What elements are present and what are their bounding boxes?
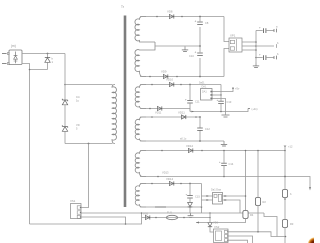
svg-text:5a01: 5a01 [199, 82, 205, 85]
wire DA1 pin2 [213, 94, 221, 96]
wire x200 vertical top caps [199, 17, 201, 77]
zener diode VD4 [62, 99, 67, 101]
node +3v tick [248, 108, 250, 110]
svg-text:DA1: DA1 [202, 86, 207, 89]
svg-text:XP1: XP1 [230, 34, 236, 38]
diode VD1 vertical [45, 54, 50, 70]
wire x221 down to pin2 line [220, 85, 222, 96]
wire x88.5 vertical down to XS1 [81, 144, 89, 208]
wire W4 bottom lead long [140, 177, 310, 189]
capacitor C11 left [185, 85, 193, 112]
wire W4 top lead rail [140, 150, 285, 152]
wire AC input stub bottom [2, 63, 7, 65]
node +12v terminal [284, 145, 286, 150]
capacitor C10 polarized [195, 51, 203, 56]
svg-text:VD13: VD13 [162, 171, 169, 175]
capacitor C13 right [217, 95, 224, 112]
svg-text:VD9: VD9 [161, 70, 167, 74]
wire W2 top lead [140, 84, 221, 86]
wire W3 top lead [140, 116, 201, 118]
wire XS2 pin1 line [228, 232, 286, 237]
diode VD15v vertical under C15 [188, 198, 193, 213]
LED VD17 [282, 190, 287, 198]
svg-text:+5v: +5v [235, 87, 240, 91]
svg-text:C4: C4 [76, 95, 80, 99]
wire x200 vertical W3 [199, 117, 201, 141]
svg-text:+: + [217, 98, 219, 102]
wire top rail from FU1 to x65 [22, 53, 65, 55]
connector XP1 [229, 38, 242, 52]
svg-text:VD5: VD5 [143, 212, 149, 216]
wire FU1 bottom to left vertical [22, 64, 30, 225]
fuse FU2 oval [166, 215, 184, 219]
IC DA2 [207, 193, 223, 205]
capacitor C14 between rails [219, 150, 227, 178]
wire bottom W1 lead to XP1 [224, 49, 229, 77]
svg-text:VD14: VD14 [166, 177, 173, 181]
svg-text:VD8: VD8 [167, 10, 173, 14]
svg-text:(m): (m) [11, 44, 16, 48]
svg-text:C13: C13 [227, 100, 232, 104]
diode VD12 [161, 148, 203, 152]
inductor secondary winding W1 upper [135, 17, 155, 43]
svg-text:+: + [185, 98, 187, 102]
svg-text:VD11: VD11 [178, 111, 185, 115]
svg-text:+: + [186, 193, 188, 197]
svg-text:R4: R4 [250, 213, 254, 217]
node junction 65,84.5 [64, 84, 66, 86]
wire join to ground line [189, 109, 191, 112]
ground under rail at 190.5 [188, 213, 194, 218]
node input pin nubs [8, 52, 10, 54]
wire top rail to XP1 [224, 17, 229, 42]
inductor primary winding of Tr1 [112, 85, 116, 144]
svg-text:+: + [195, 51, 197, 55]
diode VD8 [156, 14, 183, 18]
capacitor C15 [186, 184, 193, 199]
capacitor C2 top-right [256, 26, 277, 34]
diode VD9 [149, 74, 178, 78]
svg-text:VD: VD [76, 123, 80, 127]
node junction 190,183.5 [189, 183, 191, 185]
svg-text:C8: C8 [205, 21, 209, 25]
svg-text:(+3v): (+3v) [252, 107, 258, 111]
svg-text:VD10: VD10 [166, 78, 173, 82]
svg-text:Da1 Daa: Da1 Daa [211, 189, 221, 192]
inductor secondary winding W2 [135, 85, 146, 109]
svg-text:C10: C10 [189, 54, 194, 58]
wire left vertical x65 [64, 54, 66, 100]
node junction 190,84.5 [189, 84, 191, 86]
node junction 29.5,69.5 [29, 69, 31, 71]
diode VD11a on W2 bottom [149, 106, 162, 110]
wire W3 bottom lead / tap to ground [140, 140, 224, 142]
wire R4 bottom to arrow [196, 219, 246, 223]
wire W1 bottom lead to right [140, 76, 224, 78]
svg-text:+12: +12 [288, 145, 293, 149]
diode VD16 vertical [208, 223, 214, 233]
wire rail y213 [81, 212, 264, 214]
svg-text:DA1: DA1 [202, 91, 207, 94]
connector XS1 [71, 204, 82, 219]
svg-text:+: + [219, 160, 221, 164]
wire bottom rail y224 [30, 218, 142, 225]
svg-text:R2: R2 [263, 200, 267, 204]
ground under x256 [253, 63, 259, 68]
wire XS2 pin2 line [228, 236, 253, 243]
node arrow down right edge [309, 187, 311, 191]
wire XS1 pin3 jog [81, 217, 126, 224]
svg-text:VD11: VD11 [155, 111, 162, 115]
diode VD15 [145, 215, 156, 219]
wire XS2 pin3 line [228, 240, 248, 243]
diode VD10 [151, 82, 182, 86]
wire XP1 pins right [242, 42, 256, 50]
wire bottom of DA1 block [190, 109, 248, 112]
svg-text:C14: C14 [229, 162, 234, 166]
node +5v arrow [232, 87, 234, 89]
resistor R3 [282, 220, 287, 228]
svg-text:1u: 1u [76, 99, 79, 103]
capacitor C8 polarized [195, 20, 203, 25]
IC DA1 [201, 89, 213, 101]
wire center tap to ground line [155, 45, 200, 47]
wire W1 center tap U [135, 42, 155, 77]
wire branch to VD1 bottom [30, 69, 48, 71]
inductor secondary winding W4 [135, 151, 146, 177]
wire x258 vertical [257, 151, 259, 198]
wire AC input stub top [2, 53, 7, 55]
diode VD11 [151, 115, 197, 119]
inductor secondary winding W3 [135, 117, 146, 141]
svg-text:XS1: XS1 [70, 199, 76, 203]
svg-text:R3: R3 [290, 222, 294, 226]
capacitor C3 lower-right [256, 53, 277, 61]
capacitor C12 [197, 128, 203, 130]
wire rail y213 to x277 jog [264, 213, 277, 237]
logo blob bottom right [308, 237, 320, 243]
wire W2 bottom lead [140, 108, 190, 110]
svg-text:a0.1u: a0.1u [180, 138, 187, 141]
wire x285 vertical [284, 151, 286, 191]
ground at 224,141 [221, 141, 227, 146]
svg-text:VD12: VD12 [186, 144, 193, 148]
node junction 210,217.5 [209, 217, 211, 219]
node junctions on x200 [199, 16, 201, 18]
fuse/lamp FU1 box [9, 50, 22, 65]
svg-text:+: + [259, 53, 261, 57]
diode VD14 [151, 181, 182, 185]
wire fuse line y217.5 [142, 217, 211, 219]
wire middle terminal [256, 44, 277, 48]
inductor secondary winding W5 [135, 184, 146, 208]
resistor R4 [243, 211, 248, 219]
wire DA1 pin3 to ground stem [213, 99, 226, 115]
wire x201.5 vertical to DA2 [202, 184, 213, 208]
node junction 88.5,143.5 [88, 143, 90, 145]
wire W5 top lead [140, 183, 202, 185]
svg-text:+: + [259, 26, 261, 30]
node junction at 47.5,53.5 [47, 53, 49, 55]
wire primary top lead [65, 84, 113, 86]
svg-text:XS2: XS2 [214, 225, 220, 229]
svg-text:FU1: FU1 [167, 211, 172, 215]
wire primary bottom lead [65, 143, 113, 145]
wire DA2 pin lines right [223, 196, 246, 213]
svg-text:C15: C15 [195, 195, 200, 199]
wire W1 top lead to right [140, 16, 224, 18]
svg-text:C12: C12 [205, 127, 210, 131]
wire x256 vertical [255, 31, 257, 63]
ground bars under 225.5 [222, 115, 230, 117]
wire x245.5 vertical [245, 151, 247, 212]
svg-text:C11: C11 [195, 100, 200, 104]
ground at 185,46 [182, 47, 188, 52]
connector XS2 [214, 229, 229, 243]
svg-text:+: + [195, 20, 197, 24]
resistor R2 [255, 198, 260, 206]
transformer core Tr1 [124, 16, 127, 208]
wire DA1 pin1 to +5v [213, 87, 233, 92]
wire W5 bottom lead [140, 207, 202, 213]
zener diode VD2 [62, 125, 67, 143]
